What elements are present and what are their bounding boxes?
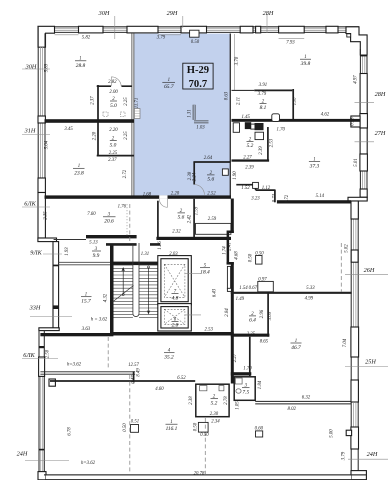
vent square at wall step xyxy=(253,182,259,188)
svg-text:8.49: 8.49 xyxy=(137,368,142,377)
svg-text:2.96: 2.96 xyxy=(260,309,265,318)
svg-text:2.58: 2.58 xyxy=(46,349,51,358)
svg-text:4.60: 4.60 xyxy=(155,387,164,392)
dashed boundary line 2 xyxy=(204,418,206,474)
room label 1/23.8 xyxy=(73,164,85,176)
svg-text:5.89: 5.89 xyxy=(45,63,50,72)
right wall pier block 2 xyxy=(360,154,368,171)
svg-text:1.70: 1.70 xyxy=(276,127,285,132)
hall 5.6 bottom wall xyxy=(156,237,231,240)
grid tick 28N top xyxy=(266,14,268,33)
shaft 0.97 xyxy=(258,281,274,291)
svg-text:3.91: 3.91 xyxy=(259,83,267,88)
svg-text:5.2: 5.2 xyxy=(247,143,254,149)
elevator car B dashed xyxy=(164,309,185,324)
svg-text:1.54: 1.54 xyxy=(239,286,248,291)
svg-text:1.90: 1.90 xyxy=(233,171,238,180)
room label 4/35.2 xyxy=(163,349,174,361)
svg-text:2.59: 2.59 xyxy=(208,217,217,222)
room label 2/5.2 bottom xyxy=(211,395,219,407)
leader 6LK left xyxy=(22,206,50,208)
svg-text:1.84: 1.84 xyxy=(258,380,263,389)
svg-text:5.0: 5.0 xyxy=(110,142,117,148)
top wall pier 4 xyxy=(240,26,253,33)
unit H-29 boundary left double line xyxy=(132,34,134,196)
dashed boundary line 3 xyxy=(340,243,342,292)
svg-text:5.6: 5.6 xyxy=(178,215,185,221)
svg-text:6.4: 6.4 xyxy=(249,318,256,324)
hall shaft small square xyxy=(227,288,231,291)
small jog pier bottom-left xyxy=(49,379,55,386)
svg-text:12.57: 12.57 xyxy=(128,363,139,368)
long wall right of hall 18.4 xyxy=(231,199,234,234)
room 5.6 blue partition vertical with door xyxy=(193,162,195,184)
room 6.4 bottom wall xyxy=(231,334,270,337)
room label 2/8.1 xyxy=(260,99,267,111)
svg-text:h = 3.62: h = 3.62 xyxy=(91,317,108,322)
svg-text:4.68: 4.68 xyxy=(235,251,240,260)
svg-text:6.78: 6.78 xyxy=(68,427,73,436)
svg-text:0.51: 0.51 xyxy=(131,420,139,425)
leader 31N left xyxy=(22,134,50,136)
top wall pier 6 xyxy=(279,26,305,33)
room label 3/7.5 xyxy=(242,384,250,396)
svg-text:39.8: 39.8 xyxy=(300,61,311,67)
room label 2/5.0 second xyxy=(110,136,117,148)
lower right wall pier 4 xyxy=(351,380,358,402)
svg-text:3.79: 3.79 xyxy=(157,36,166,41)
svg-text:2.52: 2.52 xyxy=(207,191,216,196)
svg-text:1.93: 1.93 xyxy=(65,247,70,256)
svg-text:20.6: 20.6 xyxy=(104,219,114,225)
svg-text:15.7: 15.7 xyxy=(81,299,91,305)
vent 0.50 mid right xyxy=(256,256,262,265)
svg-text:20.78: 20.78 xyxy=(194,471,205,476)
door arc room 5.6 blue xyxy=(194,185,204,195)
wall room 5.0 top with door gap xyxy=(97,85,132,87)
svg-text:2.38: 2.38 xyxy=(188,171,193,180)
wall 6.32/8.02 double line xyxy=(255,401,351,404)
svg-text:1.68: 1.68 xyxy=(143,193,152,198)
svg-text:2.25: 2.25 xyxy=(124,97,129,106)
svg-text:2.00: 2.00 xyxy=(109,90,118,95)
bottom-left corner block xyxy=(38,472,46,480)
svg-text:2.53: 2.53 xyxy=(270,138,275,147)
svg-text:6.52: 6.52 xyxy=(177,376,186,381)
bottom-right corner block xyxy=(351,471,366,480)
top-left corner block xyxy=(38,26,55,47)
appliance boxes room 5.0 xyxy=(103,112,108,117)
room 5.2 bottom enclosure xyxy=(196,384,229,417)
stair arrow down xyxy=(148,268,150,313)
narrow strip room 2.59 xyxy=(196,223,231,234)
svg-text:18.4: 18.4 xyxy=(200,270,210,276)
svg-text:46.7: 46.7 xyxy=(291,345,301,351)
hall 5.6 left wall xyxy=(157,201,159,237)
svg-text:2.8: 2.8 xyxy=(172,323,179,329)
svg-text:65.7: 65.7 xyxy=(164,84,174,90)
svg-text:8.1: 8.1 xyxy=(260,105,267,111)
lower right wall pier 1 xyxy=(351,201,358,219)
svg-text:8.02: 8.02 xyxy=(287,407,296,412)
room label 1/65.7 blue xyxy=(162,78,175,90)
leader 6LK2 left xyxy=(22,358,58,360)
svg-text:31Н: 31Н xyxy=(24,128,36,135)
bottom band wall B xyxy=(50,380,195,382)
svg-text:4.62: 4.62 xyxy=(321,112,330,117)
svg-text:33Н: 33Н xyxy=(29,305,41,312)
wall below stairs and hall xyxy=(110,332,234,336)
hall shaft narrow rect xyxy=(227,266,230,289)
svg-text:2.25: 2.25 xyxy=(124,131,129,140)
unit H-29 blue fill xyxy=(134,34,230,196)
svg-text:6.43: 6.43 xyxy=(213,288,218,297)
vent 0.60 square xyxy=(256,431,263,437)
svg-text:7.60: 7.60 xyxy=(87,212,96,217)
door arc hall entrance xyxy=(159,199,167,207)
wall below 8.1 and top of 37.3 xyxy=(232,119,361,122)
svg-text:7.5: 7.5 xyxy=(242,390,249,396)
mid-left wall band xyxy=(53,242,59,328)
svg-text:5.01: 5.01 xyxy=(354,158,359,166)
thin wall blue to 8.1 xyxy=(232,89,255,91)
svg-text:3.45: 3.45 xyxy=(64,127,73,132)
svg-text:2.82: 2.82 xyxy=(108,80,117,85)
right wall pier xyxy=(360,74,367,114)
svg-text:3.09: 3.09 xyxy=(268,311,273,320)
svg-text:2.25: 2.25 xyxy=(247,332,256,337)
fixtures in 5.2 xyxy=(200,386,207,391)
lower-left wall pier xyxy=(39,357,45,376)
svg-text:2.37: 2.37 xyxy=(91,96,96,105)
svg-text:4.97: 4.97 xyxy=(354,75,359,84)
svg-text:5.0: 5.0 xyxy=(110,103,117,109)
wall vertical step 0.73 xyxy=(274,190,276,203)
wall room 8.1 top xyxy=(254,89,292,91)
svg-text:2.30: 2.30 xyxy=(210,412,219,417)
svg-text:23.8: 23.8 xyxy=(74,170,84,176)
wall room 5.0 vertical xyxy=(97,85,99,120)
room label 2/5.6 blue xyxy=(207,171,215,183)
fixtures in 7.5 xyxy=(235,378,242,384)
shaft hatch on blue left wall xyxy=(134,109,140,119)
svg-text:28Н: 28Н xyxy=(375,91,386,98)
big wall top of 46.7 xyxy=(231,292,352,294)
vent 0.50b square xyxy=(198,422,208,432)
top wall pier 2 xyxy=(127,26,158,33)
room label 1/39.8 xyxy=(300,55,311,67)
svg-text:1.59: 1.59 xyxy=(195,206,200,215)
svg-text:0.50: 0.50 xyxy=(255,251,264,256)
room label 6/2.8 xyxy=(172,317,179,328)
svg-text:70.7: 70.7 xyxy=(189,79,208,90)
L-shaped stub wall in blue unit xyxy=(194,105,208,122)
svg-text:116.1: 116.1 xyxy=(166,426,178,432)
lower right wall pier 5 xyxy=(351,427,359,449)
svg-text:1.05: 1.05 xyxy=(236,401,241,410)
svg-text:2.20: 2.20 xyxy=(171,191,180,196)
svg-text:2.03: 2.03 xyxy=(169,252,178,257)
landing wall above stairs xyxy=(106,243,160,246)
room label 2/6.4 xyxy=(249,312,256,324)
svg-text:1.76: 1.76 xyxy=(118,204,127,209)
lower-left wall tick 2 xyxy=(39,449,45,451)
svg-text:5.33: 5.33 xyxy=(306,286,315,291)
svg-text:2.53: 2.53 xyxy=(204,327,213,332)
corner detail square xyxy=(347,34,351,37)
svg-text:4.32: 4.32 xyxy=(104,293,109,302)
svg-text:1.52: 1.52 xyxy=(241,186,250,191)
room label 7/4.8 xyxy=(172,290,179,302)
room label 5/18.4 xyxy=(200,264,210,276)
svg-text:8.65: 8.65 xyxy=(260,339,269,344)
corridor wall piece xyxy=(231,372,252,375)
wall 39.8 left dim line xyxy=(233,34,235,90)
mid-left wall tick 33N xyxy=(53,305,59,309)
left wall pier dark xyxy=(38,178,45,193)
stair break line xyxy=(113,286,134,303)
vent square 0.50 on top wall xyxy=(190,30,199,37)
svg-text:6ЛК: 6ЛК xyxy=(24,201,36,208)
svg-text:26Н: 26Н xyxy=(364,267,375,274)
room label 1/46.7 xyxy=(291,339,302,351)
svg-text:5.00: 5.00 xyxy=(330,429,335,438)
top wall pier 7 xyxy=(326,26,338,33)
svg-text:5.14: 5.14 xyxy=(316,194,325,199)
right wall column block 0.53 xyxy=(351,116,360,127)
dim line 5.82 top xyxy=(55,34,79,36)
svg-text:30Н: 30Н xyxy=(25,64,37,71)
svg-text:1.87: 1.87 xyxy=(293,96,298,105)
vent 0.51 square xyxy=(131,425,139,433)
svg-text:2.11: 2.11 xyxy=(237,97,242,105)
svg-text:11.71: 11.71 xyxy=(135,98,140,108)
right exterior wall lower xyxy=(351,201,358,471)
svg-text:27Н: 27Н xyxy=(375,130,386,137)
svg-text:25Н: 25Н xyxy=(365,359,376,366)
svg-text:5.2: 5.2 xyxy=(211,401,218,407)
lower right wall pier 3 xyxy=(351,327,359,357)
wall 5.14 top of step xyxy=(277,200,351,203)
svg-text:1.31: 1.31 xyxy=(141,252,149,257)
svg-text:1.12: 1.12 xyxy=(262,186,271,191)
svg-text:2.41: 2.41 xyxy=(228,242,233,250)
elevator shaft B xyxy=(158,304,192,331)
elevator car A dashed xyxy=(164,264,185,297)
left wall lower white section xyxy=(38,193,45,239)
svg-text:37.3: 37.3 xyxy=(309,163,320,169)
svg-text:2.37: 2.37 xyxy=(108,158,117,163)
svg-text:2.39: 2.39 xyxy=(259,146,264,155)
leader 24N right xyxy=(348,458,388,460)
svg-text:1.31: 1.31 xyxy=(187,109,192,117)
dim line 3.79 top xyxy=(158,34,181,36)
right wall dark tick xyxy=(360,55,367,56)
leader 33N left xyxy=(30,316,72,318)
svg-text:3.79: 3.79 xyxy=(342,451,347,460)
svg-text:3.63: 3.63 xyxy=(82,327,91,332)
svg-text:2.32: 2.32 xyxy=(172,229,181,234)
stair left wall xyxy=(110,244,114,336)
vent white square small xyxy=(251,124,257,129)
elevator leader A xyxy=(185,273,201,275)
stair treads right flight xyxy=(139,265,158,318)
wall below room 5.0b xyxy=(97,155,134,157)
bottom band wall A double line xyxy=(40,372,135,374)
room 15.7 top partition xyxy=(59,262,111,265)
svg-text:0.50: 0.50 xyxy=(200,433,209,438)
svg-text:7.04: 7.04 xyxy=(343,338,348,347)
svg-text:28Н: 28Н xyxy=(263,10,274,17)
svg-text:3.70: 3.70 xyxy=(235,56,240,65)
grid tick 29N top xyxy=(182,16,184,28)
svg-text:2.64: 2.64 xyxy=(204,156,213,161)
stair stringer xyxy=(133,243,139,317)
svg-text:5.6: 5.6 xyxy=(207,177,214,183)
room label 2/5.0 top xyxy=(110,97,117,109)
svg-text:2.42: 2.42 xyxy=(188,214,193,223)
wall stub at vent cluster xyxy=(245,122,251,129)
dashed boundary line 1 xyxy=(129,204,131,474)
mid-left wall tick xyxy=(53,265,59,267)
right exterior wall upper xyxy=(360,49,367,197)
svg-text:9.9: 9.9 xyxy=(93,253,100,259)
svg-text:9ЛК: 9ЛК xyxy=(30,250,42,257)
svg-text:2.27: 2.27 xyxy=(243,156,252,161)
wall room 5.0b vertical xyxy=(97,123,99,157)
svg-text:3.79: 3.79 xyxy=(258,92,267,97)
svg-text:7.93: 7.93 xyxy=(286,41,295,46)
bottom band wall step xyxy=(133,371,135,382)
svg-text:2.78: 2.78 xyxy=(224,396,229,405)
svg-text:0.50: 0.50 xyxy=(123,423,128,432)
room label 3/9.9 xyxy=(92,247,101,259)
leader 9LK left xyxy=(43,253,62,255)
room label 3/20.6 xyxy=(103,213,116,225)
lower-left wall tick xyxy=(39,346,45,348)
hall wall jog xyxy=(227,231,234,234)
room 5.2 mid bottom wall xyxy=(232,159,270,161)
wall below room 20.6 xyxy=(86,235,137,238)
label box H-29 xyxy=(183,63,213,89)
leader 30N left xyxy=(22,68,50,70)
top wall pier 3 with vent xyxy=(181,26,207,33)
svg-text:2.20: 2.20 xyxy=(93,131,98,140)
svg-text:1.74: 1.74 xyxy=(223,246,228,255)
svg-text:0.50: 0.50 xyxy=(191,40,200,45)
svg-text:2.35: 2.35 xyxy=(44,211,49,220)
svg-text:3.23: 3.23 xyxy=(251,197,260,202)
svg-text:0.60: 0.60 xyxy=(255,427,264,432)
right wall dark pier xyxy=(360,189,367,197)
svg-text:2.34: 2.34 xyxy=(211,420,220,425)
leader 25N right xyxy=(345,366,388,368)
elevator leader B xyxy=(185,314,201,316)
left wall jog back block xyxy=(39,328,59,331)
svg-text:h=3.62: h=3.62 xyxy=(67,362,82,367)
left wall jog block xyxy=(38,238,57,242)
svg-text:5.82: 5.82 xyxy=(82,36,91,41)
room 6.4 right wall xyxy=(267,292,269,337)
wall left section below 15.7 xyxy=(40,333,113,336)
svg-text:2.27: 2.27 xyxy=(233,353,238,362)
svg-text:2.25: 2.25 xyxy=(109,151,118,156)
svg-text:0.97: 0.97 xyxy=(258,278,267,283)
svg-text:4.8: 4.8 xyxy=(172,295,179,301)
top wall pier 1 xyxy=(79,26,104,33)
svg-text:2.84: 2.84 xyxy=(225,308,230,317)
svg-text:1.45: 1.45 xyxy=(241,115,250,120)
top-right corner block xyxy=(346,27,367,55)
top wall pier 5 xyxy=(256,26,261,33)
grid tick 30N top xyxy=(114,16,116,39)
svg-text:6.32: 6.32 xyxy=(302,396,311,401)
svg-text:1.03: 1.03 xyxy=(196,126,205,131)
svg-text:0.67: 0.67 xyxy=(249,286,258,291)
door opening in unit bottom wall xyxy=(159,195,167,199)
leader 28N right xyxy=(355,102,375,104)
svg-text:24Н: 24Н xyxy=(367,451,378,458)
dim line 7.93 top xyxy=(279,38,305,40)
room label 1/15.7 xyxy=(81,293,92,305)
right wall step band xyxy=(348,197,367,201)
svg-text:5.04: 5.04 xyxy=(45,140,50,149)
svg-text:28.8: 28.8 xyxy=(76,63,86,69)
room 46.7 left wall xyxy=(249,337,251,376)
bottom exterior wall xyxy=(44,475,366,480)
svg-text:2.72: 2.72 xyxy=(123,169,128,178)
lower-left exterior wall xyxy=(39,330,44,472)
room 7.5 enclosure xyxy=(234,377,255,401)
svg-text:2.38: 2.38 xyxy=(189,396,194,405)
svg-text:0.73: 0.73 xyxy=(273,193,278,202)
wall room 8.1 right xyxy=(292,89,294,121)
left exterior wall xyxy=(38,27,45,240)
top exterior wall band xyxy=(44,27,359,33)
door arc room 5.0 xyxy=(111,77,121,86)
stair arrow up xyxy=(122,270,124,295)
svg-text:5.13: 5.13 xyxy=(89,240,98,245)
svg-text:29Н: 29Н xyxy=(167,10,178,17)
right wall pier white xyxy=(360,128,367,154)
right wall pier block xyxy=(360,114,368,128)
svg-text:h=3.62: h=3.62 xyxy=(81,461,96,466)
left wall pier xyxy=(38,116,45,123)
leader 24N left xyxy=(25,460,69,462)
lower right square protrusion xyxy=(346,430,351,435)
room 5.2 mid right wall xyxy=(267,127,269,161)
svg-text:1.49: 1.49 xyxy=(236,297,245,302)
unit H-29 boundary right xyxy=(229,34,231,196)
svg-text:1.70: 1.70 xyxy=(243,366,252,371)
svg-text:Н-29: Н-29 xyxy=(187,65,209,76)
vent square room 5.6 xyxy=(222,169,228,175)
svg-text:0.50: 0.50 xyxy=(194,422,199,431)
svg-text:4.99: 4.99 xyxy=(305,296,314,301)
wall room1/23.8 divider xyxy=(45,119,135,123)
hall 5.6 right wall xyxy=(193,199,195,237)
unit bottom bearing wall xyxy=(45,195,232,198)
svg-text:5.82: 5.82 xyxy=(345,244,350,253)
room label 1/116.1 xyxy=(166,420,178,432)
svg-text:0.53: 0.53 xyxy=(351,117,356,126)
room 5.6 blue partition horizontal xyxy=(193,161,230,163)
vent black square xyxy=(255,123,264,130)
svg-text:0.50: 0.50 xyxy=(249,253,254,262)
room label 1/28.8 xyxy=(75,57,86,69)
vent pair at 8.1 bottom xyxy=(272,114,280,122)
svg-text:24Н: 24Н xyxy=(17,451,28,458)
